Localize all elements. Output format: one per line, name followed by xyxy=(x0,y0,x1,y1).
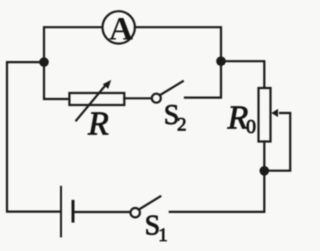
node: bottom-right junction xyxy=(260,166,270,176)
switch S1 xyxy=(131,196,161,217)
wire top-left: from ammeter left terminal down to left junction xyxy=(44,27,102,57)
svg-text:1: 1 xyxy=(158,225,168,246)
label S2 xyxy=(164,100,187,136)
wire: S1 to battery xyxy=(75,211,131,213)
node: left junction xyxy=(39,57,49,67)
battery BT1 xyxy=(61,187,73,237)
resistor R (rheostat body) xyxy=(69,93,124,105)
ammeter U1 xyxy=(103,11,135,47)
wire: S2 fixed contact up to right junction xyxy=(185,67,221,98)
wire: resistor R to switch S2 xyxy=(124,97,151,99)
wire branch: left junction down to resistor R xyxy=(44,67,68,100)
svg-text:R: R xyxy=(87,105,109,142)
wire left side: junction to left edge, down and along bottom to battery xyxy=(7,62,60,212)
wire top-right: from ammeter right terminal to right drop xyxy=(135,27,221,56)
svg-text:0: 0 xyxy=(246,116,256,138)
svg-text:2: 2 xyxy=(177,115,187,136)
svg-text:A: A xyxy=(109,12,133,48)
label R0 xyxy=(227,99,257,138)
wire: R0 bottom lead to bottom-right junction xyxy=(263,142,265,167)
label S1 xyxy=(145,211,168,247)
wire: bottom-right junction down and left to S1 fixed contact xyxy=(170,175,264,212)
node: right junction xyxy=(216,56,226,66)
wiper arrow of R0 (slider return wire) xyxy=(269,109,290,171)
arrow of rheostat R xyxy=(76,80,111,121)
switch S2 xyxy=(152,81,183,103)
wire: right junction to R0 top xyxy=(226,61,265,87)
resistor R0 xyxy=(259,88,271,142)
